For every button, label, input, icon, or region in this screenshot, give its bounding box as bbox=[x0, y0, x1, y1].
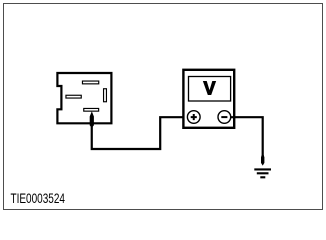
wire probe to voltmeter plus terminal bbox=[92, 117, 188, 149]
connector pin slot (left middle) bbox=[66, 95, 81, 98]
voltmeter plus terminal bbox=[187, 111, 200, 124]
connector pin slot (bottom, probed) bbox=[84, 108, 99, 111]
connector pin slot (top) bbox=[82, 81, 98, 84]
crimp terminal on ground wire bbox=[261, 155, 264, 166]
svg-text:TIE0003524: TIE0003524 bbox=[11, 191, 66, 206]
connector X1 body bbox=[57, 73, 111, 123]
voltmeter minus terminal bbox=[218, 111, 231, 124]
ground symbol bbox=[254, 169, 271, 177]
connector pin slot (right vertical) bbox=[104, 89, 107, 102]
voltmeter display window bbox=[189, 77, 231, 102]
wire minus terminal to ground bbox=[231, 117, 263, 156]
voltmeter label V bbox=[203, 79, 215, 99]
svg-text:V: V bbox=[203, 79, 215, 99]
figure reference label TIE0003524 bbox=[11, 191, 66, 206]
test probe on bottom pin bbox=[90, 111, 94, 126]
voltmeter U1 body bbox=[183, 70, 234, 128]
